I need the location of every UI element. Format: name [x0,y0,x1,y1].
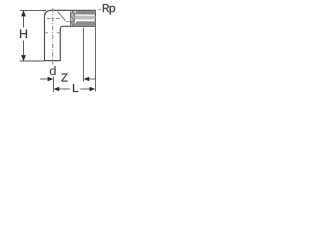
extension line below d [52,77,54,92]
thread hatch top band [74,11,95,15]
Rp leader line [98,9,101,11]
Z arrow left-pointing [84,77,90,82]
H top extension line [20,9,46,11]
pipe stop stub right [57,32,61,34]
label Z [61,74,67,82]
L dimension line left segment [59,88,70,90]
H dimension line upper segment [23,10,25,27]
Z dimension left tail [40,78,48,80]
socket joint vertical line x=70.6 [70,11,72,27]
centerline dash below pipe [52,62,54,65]
vertical centerline of press end (dash-dot) [52,8,54,59]
hatch in joint strip [71,11,74,26]
H arrow up [21,10,26,16]
Z arrow right-pointing [48,77,54,82]
inner band line lower [66,21,95,23]
thread hatch bottom band [74,21,95,26]
label d [50,66,56,75]
inner band line upper [74,13,95,15]
label H [20,30,27,38]
pipe stop stub left [45,32,49,34]
L arrow left-pointing [54,87,60,92]
socket joint vertical line x=74.3 [73,11,75,27]
thread bore grey band [75,16,96,20]
H dimension line lower segment [23,41,25,62]
L dimension line right segment [80,88,89,90]
horizontal centerline of threaded end (dash-dot) [47,18,61,20]
label L [73,84,78,92]
extension line x=83 [82,28,84,82]
extension line x=95 [94,27,96,92]
bend mitre diagonal [57,12,65,21]
elbow fitting body outline [45,10,96,60]
H bottom extension line [20,60,44,62]
Z dimension right tail [89,78,95,80]
H arrow down [21,55,26,61]
label Rp [103,4,109,12]
L arrow right-pointing [90,87,96,92]
